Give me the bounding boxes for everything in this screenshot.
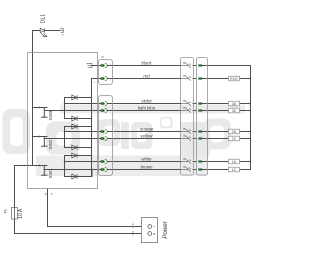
svg-text:yellow: yellow — [139, 133, 153, 138]
svg-text:2A: 2A — [232, 130, 237, 134]
svg-text:SW1: SW1 — [48, 168, 53, 178]
svg-text:light blue: light blue — [138, 105, 156, 110]
svg-text:0.5: 0.5 — [131, 223, 135, 228]
svg-text:3A: 3A — [232, 102, 237, 106]
svg-text:DL1: DL1 — [41, 14, 47, 23]
svg-text:EVO: EVO — [230, 77, 238, 81]
svg-text:10 A: 10 A — [18, 208, 24, 219]
svg-text:orange: orange — [140, 126, 154, 131]
svg-text:black: black — [141, 60, 152, 65]
svg-text:white: white — [141, 156, 152, 161]
svg-text:SW2: SW2 — [48, 139, 53, 149]
svg-text:Power: Power — [162, 220, 169, 238]
svg-text:2C: 2C — [232, 137, 237, 141]
svg-text:violet: violet — [141, 98, 152, 103]
svg-text:J2: J2 — [44, 192, 48, 196]
svg-text:3C: 3C — [232, 109, 237, 113]
svg-text:brown: brown — [141, 164, 154, 169]
svg-text:0.5: 0.5 — [131, 231, 135, 236]
svg-text:red: red — [143, 73, 150, 78]
svg-text:1C: 1C — [232, 168, 237, 172]
svg-text:1A: 1A — [232, 160, 237, 164]
svg-text:J1: J1 — [101, 55, 105, 59]
svg-text:F1: F1 — [3, 209, 7, 213]
svg-text:SW3: SW3 — [48, 110, 53, 120]
